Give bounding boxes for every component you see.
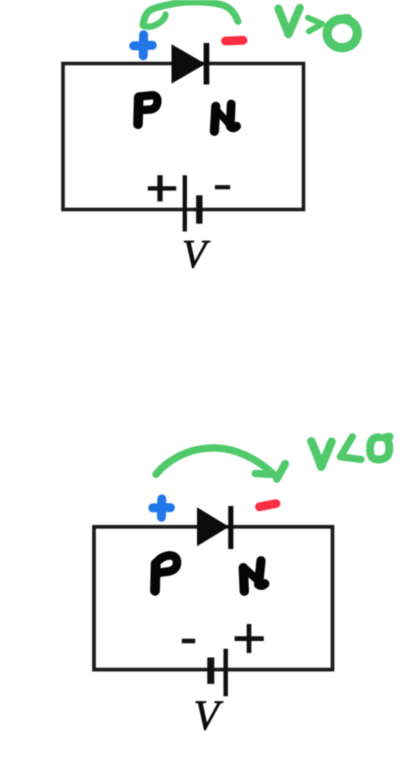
green arrow (top, pointing left toward anode) <box>143 2 238 27</box>
label P (top, hand-drawn) <box>138 95 157 124</box>
label P (bottom, hand-drawn) <box>155 555 177 590</box>
red minus annotation (top, cathode) <box>226 36 244 46</box>
wire loop (top circuit box) <box>63 64 304 210</box>
label N (bottom, hand-drawn) <box>243 561 264 592</box>
blue plus annotation (top, anode) <box>134 35 153 56</box>
diode D (top): cathode bar <box>204 43 210 85</box>
battery plus sign (top) <box>148 175 176 201</box>
diode D (bottom): anode triangle <box>197 507 229 546</box>
battery V (bottom): positive plate (tall, right) <box>223 649 228 697</box>
battery V (top): positive plate (tall, left) <box>183 175 187 231</box>
red minus annotation (bottom, cathode) <box>260 504 277 507</box>
wire loop (bottom circuit box) <box>94 527 333 670</box>
label N (top, hand-drawn) <box>214 104 236 131</box>
green text V>0 (top) <box>278 8 358 49</box>
battery plus sign (bottom, right) <box>235 624 264 653</box>
svg-text:V: V <box>182 232 211 277</box>
blue plus annotation (bottom, anode) <box>153 499 171 517</box>
diode D (top): anode triangle <box>172 44 206 83</box>
battery minus sign (top) <box>215 185 230 189</box>
battery minus sign (bottom, left) <box>182 639 195 644</box>
green text V<0 (bottom) <box>311 437 389 467</box>
diode D (bottom): cathode bar <box>228 506 233 549</box>
battery V (top): negative plate (short, right) <box>196 195 202 223</box>
green arrow (bottom, pointing right toward cathode) <box>156 448 285 479</box>
svg-text:V: V <box>194 694 224 740</box>
battery V (bottom): negative plate (short, left) <box>207 658 214 684</box>
